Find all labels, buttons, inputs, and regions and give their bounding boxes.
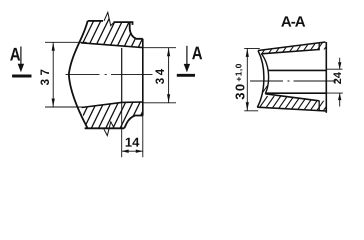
svg-text:37: 37 <box>40 66 52 86</box>
A-A bore top line <box>268 69 326 71</box>
svg-text:24: 24 <box>332 71 344 84</box>
section indicator right: arrow <box>186 46 188 64</box>
centerline (main view axis) <box>66 74 153 76</box>
A-A top wall inner edge <box>261 50 319 54</box>
break line (top zigzag) <box>104 12 114 25</box>
A-A bottom wall outer edge <box>257 107 326 111</box>
svg-text:A-A: A-A <box>281 14 306 31</box>
hatching A-A top wall <box>247 38 345 56</box>
hatching A-A bottom wall <box>247 96 347 116</box>
A-A recess lip top <box>318 43 320 51</box>
svg-text:A: A <box>192 43 203 64</box>
hatching bottom rim section <box>64 92 174 140</box>
dimension 24 <box>327 58 343 107</box>
section indicator left: arrow <box>20 47 22 65</box>
A-A right face <box>325 42 327 113</box>
A-A recess lip bottom <box>318 101 320 112</box>
dimension 34 <box>144 48 177 103</box>
A-A top wall outer edge <box>258 42 325 51</box>
hatching top rim section <box>64 8 165 52</box>
break line (bottom zigzag) <box>104 122 115 136</box>
bottom fillet + ledge <box>124 116 143 129</box>
dimension 30+1,0 <box>244 48 260 110</box>
groove waist edge <box>121 48 123 103</box>
A-A bottom wall inner edge <box>265 94 319 101</box>
dimension 14 <box>122 102 143 157</box>
dimension 37 <box>45 42 87 107</box>
centerline (A-A axis) <box>250 80 336 82</box>
section indicator right: cut line <box>177 74 195 77</box>
groove/bore bottom line <box>82 102 143 108</box>
right face <box>142 39 144 116</box>
svg-text:34: 34 <box>155 66 167 84</box>
bore/groove top line <box>81 43 143 48</box>
left profile arc <box>69 21 88 128</box>
rim bottom outline <box>85 127 125 129</box>
hatching A-A left wall <box>249 42 328 112</box>
section indicator left: cut line <box>12 75 31 78</box>
rim top outline <box>88 20 103 22</box>
svg-text:+1,0: +1,0 <box>233 63 243 81</box>
A-A bore bottom line <box>266 92 327 94</box>
A-A inner left arc <box>261 54 268 94</box>
svg-text:14: 14 <box>125 135 140 150</box>
svg-text:30: 30 <box>232 82 247 99</box>
svg-text:A: A <box>10 44 21 65</box>
rim top right + lip + fillet + ledge <box>114 22 143 39</box>
A-A outer left arc <box>257 51 264 108</box>
